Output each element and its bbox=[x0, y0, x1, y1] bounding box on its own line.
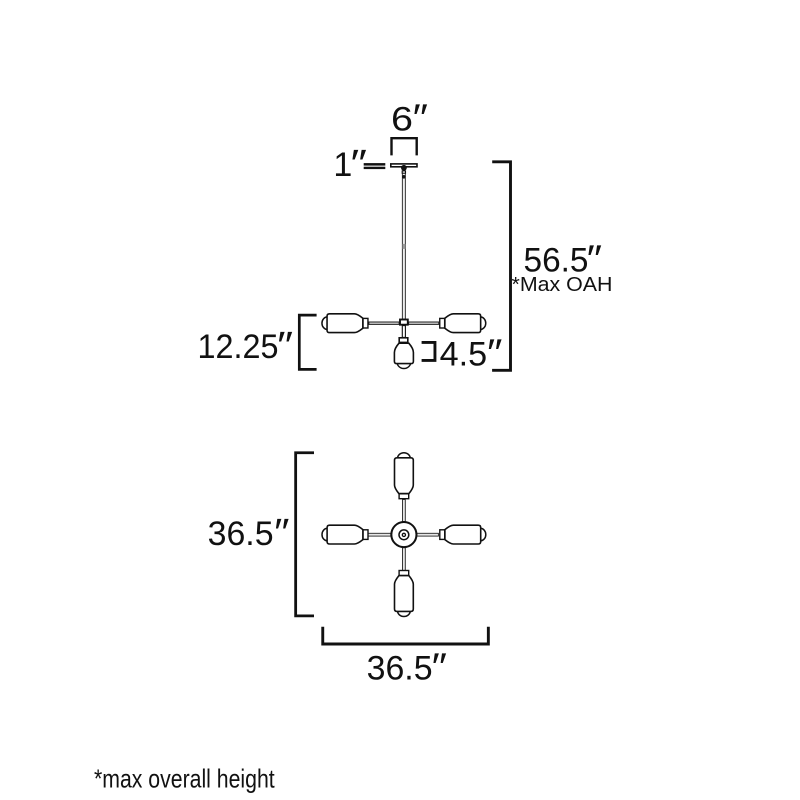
svg-text:*max overall height: *max overall height bbox=[94, 764, 275, 794]
svg-text:36.5: 36.5 bbox=[208, 515, 274, 553]
svg-text:4.5: 4.5 bbox=[440, 336, 488, 374]
svg-text:6: 6 bbox=[391, 100, 413, 138]
svg-text:″: ″ bbox=[277, 325, 293, 367]
svg-text:″: ″ bbox=[351, 143, 367, 185]
svg-text:12.25: 12.25 bbox=[198, 328, 279, 366]
svg-text:″: ″ bbox=[487, 333, 502, 375]
svg-text:*Max OAH: *Max OAH bbox=[512, 274, 613, 296]
svg-text:″: ″ bbox=[432, 646, 447, 688]
svg-text:1: 1 bbox=[333, 146, 352, 184]
svg-text:36.5: 36.5 bbox=[367, 649, 433, 687]
svg-text:″: ″ bbox=[274, 512, 289, 554]
svg-text:″: ″ bbox=[413, 97, 428, 139]
